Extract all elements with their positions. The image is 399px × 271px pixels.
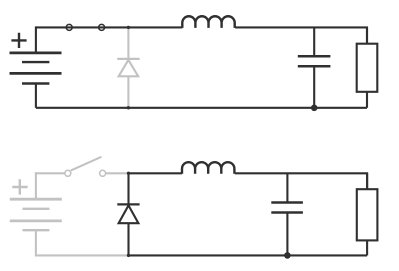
wire: top rail inductor to resistor corner (black) xyxy=(235,172,367,189)
resistor R2 xyxy=(357,173,378,255)
junction node: diode D2 to bottom rail xyxy=(127,254,130,257)
capacitor C1 xyxy=(298,27,331,107)
switch S1 (closed) terminal circle 2 xyxy=(99,24,105,30)
battery V2 plus sign (gray) xyxy=(12,179,27,194)
diode D1 (inactive, gray) xyxy=(117,28,139,107)
inductor L2 xyxy=(182,162,234,174)
switch S1 (closed) terminal circle 1 xyxy=(66,24,72,30)
junction node: diode D1 anode to top rail xyxy=(127,26,130,29)
junction node: capacitor C1 to bottom rail xyxy=(311,105,318,112)
inductor L1 xyxy=(182,16,234,28)
wire: top rail right (inductor to resistor corner) xyxy=(235,26,367,43)
diode D2 (conducting, black) xyxy=(117,172,139,255)
wire: bottom rail diode to resistor (black) xyxy=(128,254,368,256)
wire: top rail diode to inductor (black) xyxy=(128,172,183,174)
capacitor C2 xyxy=(271,173,303,255)
wire: switch terminal 2 to diode junction (gray) xyxy=(106,172,129,174)
junction node: diode D2 to top rail xyxy=(127,172,130,175)
switch S2 (open) terminal circle 1 (gray) xyxy=(65,170,71,176)
junction node: capacitor C2 to bottom rail xyxy=(284,252,291,259)
battery V2 (inactive, gray) xyxy=(10,172,62,255)
battery V1 xyxy=(10,26,62,107)
wire: battery V2 to switch terminal (gray) xyxy=(35,172,65,174)
switch S2 (open) lever arm (gray) xyxy=(71,157,102,171)
resistor R1 xyxy=(357,27,378,107)
switch S2 (open) terminal circle 2 (gray) xyxy=(100,170,106,176)
wire: bottom rail xyxy=(36,107,367,109)
wire: battery V2 negative to diode on bottom rail (gray) xyxy=(35,254,128,256)
junction node: diode D1 cathode to bottom rail xyxy=(127,106,130,109)
wire: top rail left (battery to inductor) xyxy=(36,26,182,28)
battery V1 plus sign xyxy=(11,33,26,48)
